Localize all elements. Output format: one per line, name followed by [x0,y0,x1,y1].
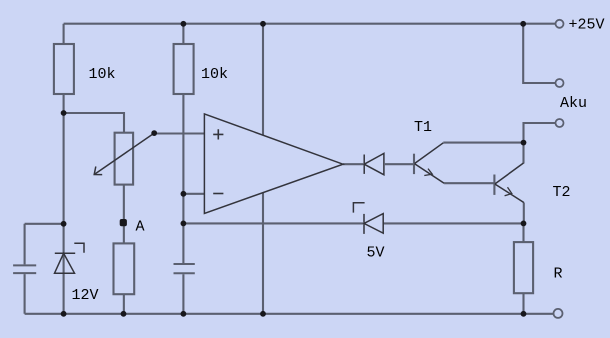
wire +25V to Aku [523,24,555,83]
node rail / output column [260,311,266,317]
node mid column / mid wire [181,221,187,227]
transistor T1 [414,143,444,183]
wire middle column [182,24,184,314]
resistor A body [114,243,135,294]
wire T2 emitter vertical [523,203,525,224]
node rail / mid column [181,311,187,317]
wire output column (passes behind op-amp) [262,24,264,314]
svg-text:A: A [136,219,145,236]
node rail / resistor R [521,311,527,317]
wire mid horizontal left of zener [183,222,363,224]
wire T2 collector vertical [522,143,524,164]
wire T1 collector horizontal [443,142,523,144]
wire minus input [183,193,204,195]
node pot wiper [151,130,157,136]
svg-text:10k: 10k [201,66,228,83]
wire third terminal [524,123,556,143]
wire mid horizontal right of zener [383,222,523,224]
svg-text:+25V: +25V [569,17,605,34]
node minus input [181,191,187,197]
resistor R body [514,242,533,293]
svg-text:T1: T1 [414,119,432,136]
wire plus input [154,132,204,134]
resistor 10k R2 [174,44,194,94]
wire T1 emitter to T2 base [444,182,494,184]
wire capacitor C1 leads [25,224,64,314]
svg-text:T2: T2 [553,184,571,201]
wire diode to T1 base [385,163,413,165]
svg-text:5V: 5V [367,245,385,262]
node top rail / +25V drop [520,21,526,27]
node top rail / R2 [181,21,187,27]
wire left column [63,24,65,314]
terminal third [556,119,564,127]
zener diode 5V [353,203,383,234]
diode D1 (op-amp output) [364,153,384,174]
transistor T2 [494,163,523,203]
node cap C1 / left column [61,221,67,227]
wire pot bottom lead [123,185,125,314]
node T2 emitter / mid wire [521,221,527,227]
capacitor C2 plates [174,264,195,273]
wire op-amp output [343,163,363,165]
node rail / left column [61,311,67,317]
resistor 10k R1 [54,44,74,94]
node top rail / output column [260,21,266,27]
svg-text:R: R [554,266,563,283]
potentiometer body [115,133,134,185]
terminal +25V [556,20,564,28]
svg-text:10k: 10k [89,66,116,83]
potentiometer wiper arrow [94,133,154,175]
terminal bottom [554,309,563,318]
terminal Aku [556,79,564,87]
svg-text:12V: 12V [72,287,99,304]
node left column / pot wire [61,110,67,116]
node T1 collector [521,140,527,146]
wire to potentiometer top [64,113,124,133]
node A marker [120,219,127,226]
wire resistor R leads [522,223,524,313]
op-amp U1 [204,114,343,213]
node rail / resistor A [121,311,127,317]
svg-text:Aku: Aku [560,95,587,112]
wire top rail [64,23,556,25]
wire bottom rail [25,313,553,315]
capacitor C1 plates [13,265,36,273]
zener diode 12V [55,243,85,273]
